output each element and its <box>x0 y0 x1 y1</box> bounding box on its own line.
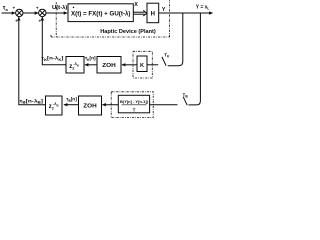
controller K dashed box <box>133 51 152 78</box>
svg-text:X: X <box>134 2 138 8</box>
plus sign sum1 bottom input <box>15 19 18 24</box>
wire sum2 to plant block <box>46 12 67 14</box>
svg-text:U(t-λ): U(t-λ) <box>52 5 68 11</box>
wire damping box to ZOH bottom <box>102 104 118 106</box>
wire sampler to damping box <box>150 104 178 106</box>
svg-text:τK[n-λK]: τK[n-λK] <box>41 56 64 62</box>
svg-text:Y: Y <box>162 7 166 13</box>
node TB label <box>183 92 189 98</box>
svg-text:TK: TK <box>164 53 170 59</box>
wire K to ZOH middle <box>122 64 137 66</box>
haptic device plant dashed box <box>51 0 170 37</box>
svg-text:B(Y[n] - Y[n-1]): B(Y[n] - Y[n-1]) <box>120 99 149 104</box>
plant state equation block <box>68 4 133 22</box>
node tau_K[n-lambdaK] label <box>41 56 64 62</box>
plus sign sum2 bottom input <box>39 19 42 24</box>
wire delay to sum2 feedback <box>42 17 66 65</box>
svg-text:K: K <box>140 63 144 69</box>
wire sum1 to sum2 <box>23 12 38 14</box>
svg-text:X(t) = FX(t) + GU(t-λ): X(t) = FX(t) + GU(t-λ) <box>71 10 131 18</box>
node U(t-lambda) label <box>52 5 68 11</box>
summing junction S1 <box>16 9 23 16</box>
wire sampler to K box <box>147 64 158 66</box>
sampler TK switch arm <box>162 57 166 66</box>
svg-text:H: H <box>151 11 155 17</box>
svg-text:ZOH: ZOH <box>83 104 97 110</box>
wire ZOH to delay with tau_K[n] label <box>85 64 97 66</box>
node Y = xL output label <box>196 4 210 10</box>
summing junction S2 <box>39 9 46 16</box>
plus sign sum1 left input <box>13 5 16 10</box>
node Y label <box>162 7 166 13</box>
svg-text:τa: τa <box>3 6 9 12</box>
svg-text:ZOH: ZOH <box>102 63 116 69</box>
block K <box>137 56 147 72</box>
svg-text:+: + <box>36 5 39 10</box>
wire ZOH to delay with tau_B[n] label <box>64 104 79 106</box>
delay block z2^-lambdaB <box>46 96 63 115</box>
wire input to sum1 <box>2 12 16 14</box>
wire H to output <box>159 12 213 14</box>
svg-text:τB[n-λB]: τB[n-λB] <box>20 98 44 104</box>
delay block z2^-lambdaK <box>66 57 84 74</box>
svg-text:Y = xL: Y = xL <box>196 4 210 10</box>
wire delay to sum1 feedback <box>19 17 46 105</box>
tap wire down to sampler TB <box>188 13 200 105</box>
tap wire down to sampler TK <box>168 13 183 66</box>
svg-text:+: + <box>13 5 16 10</box>
node X double-line arrow to H <box>133 10 147 16</box>
plus sign sum2 left input <box>36 5 39 10</box>
node tau_a input label <box>3 6 9 12</box>
node tau_B[n-lambdaB] label <box>20 98 44 104</box>
block H <box>147 3 159 23</box>
node TK label <box>164 53 170 59</box>
block ZOH bottom <box>79 96 102 115</box>
svg-text:τB[n]: τB[n] <box>66 97 77 103</box>
damping block B(Y[n]-Y[n-1])/T <box>118 95 149 113</box>
svg-text:T: T <box>133 107 136 112</box>
block ZOH middle <box>97 57 121 74</box>
sampler TB switch arm <box>183 97 187 105</box>
svg-text:+: + <box>39 19 42 24</box>
virtual damping dashed box <box>111 92 153 118</box>
svg-text:Haptic Device (Plant): Haptic Device (Plant) <box>100 29 156 35</box>
svg-text:τK[n]: τK[n] <box>85 56 96 62</box>
svg-text:+: + <box>15 19 18 24</box>
